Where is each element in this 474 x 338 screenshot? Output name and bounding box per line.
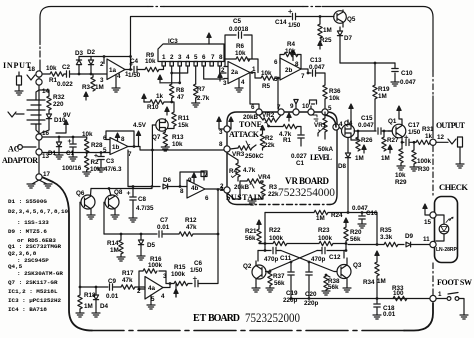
svg-text:10k: 10k [285,48,296,55]
svg-text:C15: C15 [361,115,373,122]
svg-text:D2: D2 [87,49,96,56]
svg-text:R15: R15 [174,264,186,271]
wire 1a output to C4 [125,69,132,71]
svg-text:: 1SS-133: : 1SS-133 [17,219,49,226]
svg-text:ADAPTOR: ADAPTOR [2,156,38,165]
svg-text:100k: 100k [148,262,163,269]
bias arrow under R3 [84,92,88,100]
svg-text:VR3: VR3 [232,151,245,158]
svg-text:6: 6 [202,54,206,61]
foot switch contacts [447,297,451,301]
transistor Q5 [334,11,347,24]
svg-text:C12: C12 [329,254,341,261]
wire D7 to C10 [340,62,395,64]
svg-text:R13: R13 [172,134,184,141]
9V supply arrow [64,120,68,128]
capacitor C19 220p [290,262,292,271]
node 9 [293,109,299,115]
resistor R8 47 [170,84,174,98]
resistor R20 56k [344,218,348,226]
svg-text:8: 8 [219,54,223,61]
4a output [163,284,174,288]
svg-text:3: 3 [100,77,104,84]
capacitor C1 0.027 (VR board) [298,135,304,138]
svg-text:1M: 1M [95,84,104,91]
JFET Q7 [156,119,168,131]
transistor Q1 [392,124,406,138]
JFET Q4 [342,125,355,138]
svg-text:R29: R29 [395,179,407,186]
C7 R12 bus y234 [104,233,157,235]
svg-text:17: 17 [43,171,51,178]
svg-text:C13: C13 [310,57,322,64]
1b output wire to node 8 (long) [128,147,224,151]
resistor R34 1M [375,251,379,259]
node 17 [36,174,42,180]
svg-text:7: 7 [301,73,305,80]
svg-text:4: 4 [117,73,121,80]
svg-text:7523252000: 7523252000 [245,310,300,325]
svg-text:0.01: 0.01 [383,311,396,318]
svg-text:R10: R10 [147,104,159,111]
wires bus above VR board [250,73,259,110]
svg-text:20kB: 20kB [234,184,250,191]
svg-text:220p: 220p [304,300,319,307]
svg-text:1/50: 1/50 [408,129,421,136]
svg-text:0.027: 0.027 [291,153,307,160]
svg-text:10k: 10k [329,95,340,102]
svg-text:C5: C5 [233,18,242,25]
svg-text:100k: 100k [417,158,432,165]
svg-text:R17: R17 [122,270,134,277]
capacitor C11 470p [265,250,271,252]
op-amp IC4 4b [187,180,205,198]
node 12 OUTPUT [430,139,436,145]
svg-text:15k: 15k [178,122,189,129]
svg-text:Q5: Q5 [347,16,356,23]
svg-text:D2,3,4,5,6,7,8,10: D2,3,4,5,6,7,8,10 [8,208,69,215]
4b feedback to pin7 [180,172,204,187]
svg-text:14: 14 [42,88,50,95]
svg-text:2: 2 [221,67,225,74]
svg-text:R23: R23 [318,227,330,234]
resistor R27 1M [383,131,385,137]
svg-text:R3: R3 [269,184,278,191]
svg-text:R30: R30 [418,166,430,173]
svg-text:7: 7 [277,104,281,111]
svg-text:10: 10 [302,103,310,110]
svg-text:0.01: 0.01 [106,293,119,300]
pot VR1 50kA LEVEL [324,112,326,118]
node 11 [430,241,436,247]
svg-text:R12: R12 [185,217,197,224]
resistor R7 2.7k [194,84,198,98]
capacitor C4 1/50 [134,66,137,72]
resistor R3 1M [92,74,94,77]
svg-text:R8: R8 [176,87,185,94]
Q3 collector up [344,250,346,252]
svg-text:9: 9 [290,103,294,110]
svg-text:C1: C1 [66,150,75,157]
svg-text:Q2: Q2 [243,263,252,270]
svg-text:Q1: Q1 [388,118,397,125]
svg-text:VR1: VR1 [314,122,327,129]
capacitor C15 0.047 [378,128,381,134]
left leg of bus down to rail [264,213,266,244]
svg-text:10k: 10k [395,172,406,179]
INPUT jack tip contact [27,75,35,80]
resistor R29 10k [401,142,403,149]
resistor R5 10k [261,76,275,80]
svg-text:SUSTAIN: SUSTAIN [226,193,263,202]
svg-text:6: 6 [103,135,107,142]
resistor R37 56k [269,270,271,272]
svg-text:10k: 10k [172,141,183,148]
svg-text:C19: C19 [286,290,298,297]
capacitor C12 470p [327,250,344,252]
svg-text:R11: R11 [178,115,190,122]
svg-text:OUTPUT: OUTPUT [436,121,466,130]
svg-text:R21: R21 [245,228,257,235]
svg-text:2: 2 [220,183,224,190]
svg-text:R1: R1 [283,137,292,144]
svg-text:6: 6 [205,195,209,202]
wire to D4 [80,286,96,288]
svg-text:D3: D3 [75,50,84,57]
svg-text:22k: 22k [264,142,275,149]
svg-text:R24: R24 [331,212,343,219]
svg-text:Q7 : 2SK117-GR: Q7 : 2SK117-GR [8,279,58,286]
svg-text:7: 7 [128,151,132,158]
svg-text:8: 8 [295,61,299,68]
svg-text:9V: 9V [63,112,72,119]
capacitor C6 1/50 electrolytic [195,280,198,286]
svg-text:0.047: 0.047 [358,122,374,129]
svg-text:10k: 10k [235,50,246,57]
svg-text:12: 12 [437,134,445,141]
svg-text:4: 4 [241,79,245,86]
svg-text:C7: C7 [160,217,169,224]
svg-text:R20: R20 [350,229,362,236]
op-amp IC1 1a [107,59,125,80]
op-amp IC1 1b [110,138,128,155]
Q4 source to C15 [350,138,352,140]
CHECK box [435,197,458,263]
svg-text:0.047: 0.047 [309,64,325,71]
diode D10 [46,114,51,119]
capacitor C17 1/50 electrolytic [406,139,409,145]
diode D8 [347,138,349,153]
svg-text:1/50: 1/50 [128,72,141,79]
resistor R12 47k [179,232,193,236]
ET board outline: left edge top section [39,60,41,74]
svg-text:Q4: Q4 [344,120,353,127]
svg-text:CHECK: CHECK [439,182,468,192]
node 3 [224,126,230,132]
battery 9V [27,100,45,124]
svg-text:FOOT SW: FOOT SW [437,278,472,287]
svg-text:C17: C17 [408,122,420,129]
4b output to node 2 [205,189,224,190]
ET board outline: bottom-left corner around parts list (thick) [42,177,92,331]
svg-text:7: 7 [211,54,215,61]
resistor R25 1M [319,17,321,25]
resistor R23 100k [319,241,333,245]
svg-text:1M: 1M [323,27,332,34]
sustain pot ground mark [251,199,253,201]
svg-text:47k: 47k [122,277,133,284]
node 8 [224,146,230,152]
svg-text:470p: 470p [264,256,279,263]
svg-text:IC4 : BA718: IC4 : BA718 [8,306,47,313]
resistor R6 10k [236,57,250,61]
svg-text:4.5V: 4.5V [133,122,147,129]
svg-text:7523254000: 7523254000 [278,185,335,199]
IC3 pin3 bias wire and arrow [161,66,180,83]
svg-text:Q6: Q6 [76,190,85,197]
svg-text:11: 11 [423,236,430,243]
svg-text:IC3 : µPC1252H2: IC3 : µPC1252H2 [8,297,61,304]
svg-text:5: 5 [274,76,278,83]
svg-text:R4: R4 [287,41,296,48]
svg-text:3: 3 [223,80,227,87]
svg-text:6: 6 [251,104,255,111]
svg-text:56k: 56k [274,280,285,287]
svg-text:D8: D8 [338,163,347,170]
svg-text:C10: C10 [401,70,413,77]
svg-text:R2: R2 [91,159,100,166]
wire node4 to Q4 gate [339,127,341,129]
svg-text:C3: C3 [106,158,115,165]
supply arrow above Q7 [165,107,169,115]
svg-text:R14: R14 [107,240,119,247]
svg-text:8: 8 [219,141,223,148]
svg-text:4b: 4b [191,185,199,192]
resistor R30 100k [413,142,415,150]
node 5 [322,109,328,115]
resistor R32 220 [47,96,51,110]
node 6 [256,109,262,115]
diode D6 [163,184,168,189]
resistor R10 1k [144,101,150,103]
svg-text:18: 18 [28,66,36,73]
svg-text:Q3: Q3 [353,262,362,269]
resistor R35 3.3k [384,242,398,246]
svg-text:1/50: 1/50 [190,267,203,274]
wire node15 supply arrow [425,212,430,215]
resistor R18 1M [79,287,81,295]
cross wire C11 to Q3 base [281,251,337,272]
resistor R3 22k (VR board) [262,181,264,182]
svg-text:3: 3 [163,273,167,280]
transistor Q8 [105,195,119,209]
2a output [250,73,261,79]
node 2 [224,187,230,193]
svg-text:1M: 1M [84,303,93,310]
capacitor C5 0.0018 [239,32,242,38]
svg-text:C16: C16 [366,210,378,217]
wire joining diode tops to op-amp pin2 [79,57,131,64]
svg-text:VR2: VR2 [262,112,275,119]
svg-text:R35: R35 [380,227,392,234]
R35 D9 row [348,244,384,246]
svg-text:56k: 56k [350,236,361,243]
svg-text:D1: D1 [48,150,57,157]
svg-text:10k: 10k [145,58,156,65]
R16 feedback loop [139,271,166,289]
resistor R28 10k vertical [86,137,88,139]
svg-text:R19: R19 [378,86,390,93]
svg-text:R34: R34 [363,279,375,286]
svg-text:BOARD: BOARD [208,313,240,324]
svg-text:AC: AC [8,145,20,154]
resistor R2 10k [86,153,88,157]
svg-text:C4: C4 [130,58,139,65]
node 16 [36,134,42,140]
svg-text:56k: 56k [328,284,339,291]
svg-text:2b: 2b [285,67,293,74]
svg-text:0.047: 0.047 [400,79,416,86]
IC3 pin wires down [171,66,173,84]
svg-text:C9: C9 [108,278,117,285]
svg-text:8: 8 [180,188,184,195]
ET board outline: top-left corner and top edge [40,7,148,43]
svg-text:5: 5 [151,296,155,303]
svg-text:Q1 : 2SC732TMGR: Q1 : 2SC732TMGR [8,243,61,250]
svg-text:D9: D9 [405,233,414,240]
svg-text:R36: R36 [329,88,341,95]
svg-text:TONE: TONE [239,120,262,129]
svg-text:1M: 1M [355,155,364,162]
svg-text:16: 16 [42,130,50,137]
svg-text:IC1,2 : M5218L: IC1,2 : M5218L [8,288,58,295]
svg-text:0.0018: 0.0018 [229,26,249,33]
svg-text:9: 9 [188,177,192,184]
resistor R19 1M [374,63,376,85]
svg-text:250kC: 250kC [245,153,264,160]
supply arrows left of node 3 [217,117,221,125]
capacitor C1 100/16 electrolytic [72,137,74,143]
svg-text:D7: D7 [344,35,353,42]
Q1 collector arrow [399,114,402,124]
wire y131 row [354,130,376,132]
FOOT SW node 1 [430,295,436,301]
svg-text:2: 2 [100,61,104,68]
oscillator bus R24 y212.5 [265,212,314,214]
svg-text:1/50: 1/50 [288,22,301,29]
svg-text:VR4: VR4 [258,174,271,181]
svg-text:D5: D5 [147,242,156,249]
svg-text:1k: 1k [425,133,433,140]
capacitor C10 0.047 [394,63,396,68]
svg-text:ATTACK: ATTACK [229,130,260,139]
svg-text:R25: R25 [320,37,332,44]
supply arrow left of R10 [142,94,146,102]
svg-text:15: 15 [424,219,432,226]
svg-text:D9 : MTZ5.6: D9 : MTZ5.6 [8,228,47,235]
resistor R1 10k [50,72,64,76]
grounds under node 17 [32,180,47,184]
resistor R21 56k [257,220,261,228]
svg-text:Q8: Q8 [114,189,123,196]
capacitor C3 47/6.3 electrolytic [100,153,102,156]
4.5V arrow [136,131,140,139]
diode D9 [406,242,411,247]
svg-text:4: 4 [161,293,165,300]
node 15 [430,212,436,218]
resistor R22 100k [273,241,287,245]
capacitor C18 0.01 [376,299,378,304]
svg-text:R18: R18 [84,292,96,299]
ET board outline: bottom-right corner (thick) [404,303,433,331]
svg-text:Q7: Q7 [152,134,161,141]
svg-text:C8: C8 [138,196,147,203]
svg-text:R37: R37 [273,273,285,280]
svg-text:2: 2 [170,54,174,61]
cross wire C12 to Q2 base [266,251,318,272]
svg-text:Q2,3,6,8: Q2,3,6,8 [8,250,37,257]
bottom rail to foot sw node [291,298,430,300]
wire node13 to 1b pin5 [42,152,110,154]
svg-text:3.3k: 3.3k [380,234,393,241]
capacitor C13 0.047 [313,70,316,76]
svg-text:7: 7 [204,172,208,179]
svg-text:ET: ET [193,313,207,324]
2b output to C13 [301,69,311,73]
long top wire to C14/Q5 [131,17,292,70]
svg-text:2: 2 [137,288,141,295]
svg-text:: 2SK30ATM-GR: : 2SK30ATM-GR [17,270,63,277]
capacitor C2 0.022 [67,71,70,77]
svg-text:220: 220 [53,101,64,108]
node 4 [333,124,339,130]
wire input node18 to R1 [42,73,50,75]
svg-text:470p: 470p [311,256,326,263]
diode D3 [76,60,81,65]
R4 feedback loop [280,55,301,70]
output jack [448,139,456,144]
svg-text:R3: R3 [82,84,91,91]
svg-text:R28: R28 [91,142,103,149]
capacitor C16 0.047 [361,213,363,216]
svg-text:10k: 10k [261,70,272,77]
node 7 [278,109,284,115]
svg-text:100k: 100k [269,235,284,242]
resistor R31 1k [416,140,430,144]
thick wire node5 to node4 [325,115,336,127]
node 10 [308,109,314,115]
op-amp IC2 2a [228,62,250,84]
svg-text:3: 3 [178,54,182,61]
transistor Q6 [81,195,95,209]
transistor Q2 [252,265,266,279]
svg-text:6: 6 [274,59,278,66]
IC3 body [158,44,224,62]
svg-text:100: 100 [393,290,404,297]
resistor R13 10k [163,132,167,146]
svg-text:C2: C2 [62,64,71,71]
svg-text:4.7k: 4.7k [243,167,256,174]
wire node14 to R32/D10 branch [39,90,49,96]
svg-text:C1: C1 [296,160,305,167]
svg-text:1M: 1M [378,93,387,100]
resistor R4 4.7k (VR board) [237,160,239,163]
capacitor C7 0.01 [159,231,162,237]
Q6 Q8 collector rail [91,188,152,190]
svg-text:1: 1 [438,291,442,298]
node 13 [36,149,42,155]
svg-text:10k: 10k [90,166,101,173]
